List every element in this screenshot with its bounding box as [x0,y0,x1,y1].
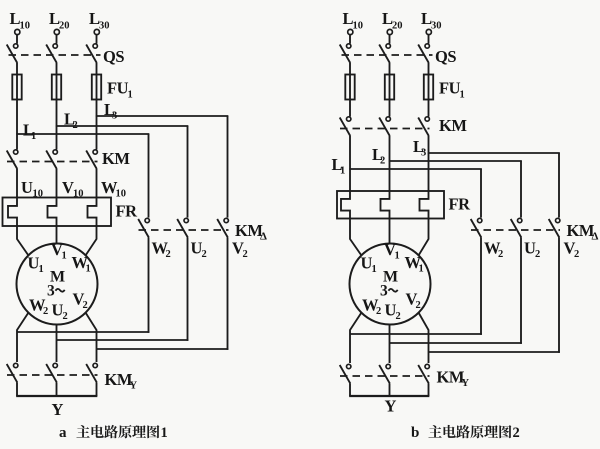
wire KM to FR heater 2 (diagram a) [56,169,58,198]
contactor label KM-delta (diagram a) [235,221,267,243]
wire FR to motor W1 (diagram a) [86,226,97,256]
svg-text:FR: FR [116,201,139,220]
svg-text:2: 2 [380,156,385,167]
svg-text:KM: KM [439,116,467,135]
right schematic: star-delta main circuit 2 [332,9,599,441]
contactor label KM-delta (diagram b) [567,221,599,243]
svg-text:3: 3 [112,111,117,122]
svg-text:2: 2 [166,249,171,260]
svg-text:10: 10 [353,21,364,32]
contactor KM-delta contact 2 (U2) (diagram b) [511,218,522,237]
terminal L10 (diagram a) [15,29,20,34]
svg-text:b: b [411,425,419,441]
wire KMY contact 3 to star bar (diagram b) [428,384,430,397]
wire KM-delta U2 branch down to step (diagram a) [187,238,189,341]
wire QS to fuse 3 (diagram b) [428,63,430,75]
wire KM-delta U2 branch down to step (diagram b) [520,238,522,344]
wire FR to motor V1 (diagram b) [389,219,391,244]
wire terminal to QS pole 2 (diagram a) [56,35,58,44]
wire KMY contact 2 to star bar (diagram b) [389,384,391,397]
disconnect switch QS pole 2 (diagram b) [379,44,390,63]
fuse FU1 element 1 (diagram b) [345,75,354,100]
wire KMY contact 1 to star bar (diagram a) [16,383,18,397]
svg-text:1: 1 [161,425,168,441]
FR heater element 3 (diagram b) [420,191,429,219]
motor label 3~ (diagram a) [47,283,65,300]
KMY linkage dashed line (diagram a) [7,374,98,376]
contactor KMY contact 3 (diagram b) [418,364,429,383]
wire FR to motor U1 (diagram b) [350,219,362,256]
contactor KMY contact 2 (diagram a) [46,363,57,382]
motor terminal label U2 (diagram a) [52,301,68,323]
wire KM-delta W2 branch down to step (diagram b) [480,238,482,335]
svg-text:2: 2 [43,306,48,317]
KM linkage dashed line (diagram a) [7,161,98,163]
wire KM-delta V2 branch down to step (diagram a) [227,238,229,350]
svg-text:2: 2 [396,311,401,322]
node L3 junction (diagram b) [428,152,430,154]
svg-text:1: 1 [460,90,465,101]
fuse FU1 element 3 (diagram b) [424,75,433,100]
terminal L10 (diagram b) [348,29,353,34]
svg-text:3: 3 [421,148,426,159]
svg-text:30: 30 [99,21,110,32]
wire fuse 1 to KM (diagram a) [16,100,18,150]
motor terminal label W1 (diagram a) [72,253,91,275]
wire FR to motor V1 (diagram a) [56,226,58,244]
svg-text:2: 2 [513,425,520,441]
wire KMY contact 2 to star bar (diagram a) [56,383,58,397]
wire step U2 to motor column (diagram b) [390,342,522,344]
KM linkage dashed line (diagram b) [340,128,430,130]
wire L2 bus to KM-delta branch (diagram a) [57,126,189,218]
svg-text:20: 20 [59,21,70,32]
wire fuse 2 to KM (diagram a) [56,100,58,150]
KM-delta linkage dashed line (diagram b) [471,229,560,231]
wire FR to motor U1 (diagram a) [17,226,29,256]
svg-text:1: 1 [340,166,345,177]
wire QS to fuse 3 (diagram a) [96,63,98,75]
disconnect switch QS pole 3 (diagram a) [86,44,97,63]
node L2 junction (diagram b) [389,160,391,162]
wire KMY contact 1 to star bar (diagram b) [349,384,351,397]
node label U10 (diagram a) [21,178,43,200]
fuse label FU1 (diagram b) [439,79,465,101]
motor M 3-phase (diagram b) [350,244,431,325]
node L30 phase label (diagram b) [421,9,442,32]
motor terminal label W1 (diagram b) [405,253,424,275]
KM-delta linkage dashed line (diagram a) [139,229,229,231]
node label L3 (diagram b) [413,137,426,159]
svg-text:20: 20 [392,21,403,32]
motor terminal label U2 (diagram b) [385,301,401,323]
wire L1 bus to KM-delta branch (diagram b) [350,169,482,218]
svg-text:1: 1 [39,264,44,275]
svg-text:2: 2 [83,300,88,311]
node label V10 (diagram a) [62,178,84,200]
wire terminal to QS pole 1 (diagram a) [16,35,18,44]
branch label W2 (diagram b) [484,239,503,261]
svg-text:1: 1 [395,251,400,262]
motor terminal label W2 (diagram a) [29,296,48,318]
wire fuse 3 to KM (diagram a) [96,100,98,150]
motor M 3-phase (diagram a) [17,244,98,325]
motor terminal label V2 (diagram b) [406,290,421,312]
fuse FU1 element 1 (diagram a) [12,75,21,100]
wire KM to FR heater 3 (diagram b) [428,136,430,191]
fuse FU1 element 2 (diagram b) [385,75,394,100]
svg-text:1: 1 [372,264,377,275]
branch label V2 (diagram b) [564,239,580,261]
wire terminal to QS pole 3 (diagram a) [96,35,98,44]
svg-text:2: 2 [202,249,207,260]
terminal L20 (diagram b) [387,29,392,34]
motor terminal label U1 (diagram a) [28,254,44,276]
svg-text:Y: Y [462,378,470,389]
FR heater element 2 (diagram a) [48,198,57,227]
svg-text:Y: Y [52,400,64,419]
svg-text:a: a [59,425,67,441]
wire KM to FR heater 3 (diagram a) [96,169,98,198]
svg-text:3: 3 [380,283,388,300]
star point bar (diagram a) [16,395,97,397]
motor terminal label V1 (diagram b) [384,240,400,262]
node L2 junction (diagram a) [56,125,58,127]
wire motor U2 down to KMY pole 2 (diagram a) [56,325,58,363]
svg-text:Y: Y [130,381,138,392]
wire terminal to QS pole 1 (diagram b) [349,35,351,44]
node L1 junction (diagram a) [16,133,18,135]
contactor KM-delta contact 2 (U2) (diagram a) [177,218,188,237]
wire motor W2 down to KMY pole 1 (diagram a) [17,313,29,363]
svg-text:U: U [21,178,33,197]
svg-text:Y: Y [385,397,397,416]
contactor label KMY (diagram b) [437,368,470,390]
wire KM-delta W2 branch down to step (diagram a) [148,238,150,333]
terminal L30 (diagram a) [94,29,99,34]
wire L3 bus to KM-delta branch (diagram b) [429,153,560,218]
node label L2 (diagram a) [64,110,78,132]
fuse FU1 element 2 (diagram a) [52,75,61,100]
contactor KM-delta contact 3 (V2) (diagram b) [549,218,560,237]
wire fuse 2 to KM (diagram b) [389,100,391,117]
contactor label KMY (diagram a) [105,370,138,392]
wire terminal to QS pole 3 (diagram b) [428,35,430,44]
svg-text:Δ: Δ [592,231,599,243]
star point label Y (diagram a) [52,400,64,419]
contactor KMY contact 3 (diagram a) [86,363,97,382]
contactor KM main contact 1 (diagram a) [7,150,18,169]
svg-text:QS: QS [103,47,124,66]
motor label M (diagram a) [50,269,65,286]
wire QS to fuse 1 (diagram a) [16,63,18,75]
wire fuse 1 to KM (diagram b) [349,100,351,117]
wire motor W2 down to KMY pole 1 (diagram b) [350,313,362,364]
node L10 phase label (diagram b) [343,9,364,32]
svg-text:2: 2 [376,306,381,317]
contactor KM main contact 2 (diagram b) [379,117,390,136]
motor terminal label U1 (diagram b) [361,254,377,276]
wire motor V2 down to KMY pole 3 (diagram a) [86,313,97,363]
svg-text:FR: FR [449,194,472,213]
node label L3 (diagram a) [104,100,117,122]
contactor label KM (diagram b) [439,116,467,135]
svg-text:2: 2 [73,120,78,131]
branch label W2 (diagram a) [152,239,171,261]
motor label 3~ (diagram b) [380,283,398,300]
svg-text:2: 2 [243,249,248,260]
KMY linkage dashed line (diagram b) [340,375,430,377]
contactor KMY contact 1 (diagram a) [7,363,18,382]
terminal L20 (diagram a) [54,29,59,34]
switch label QS (diagram a) [103,47,124,66]
motor label M (diagram b) [383,269,398,286]
caption a: main circuit schematic 1 [59,425,168,441]
node label L1 (diagram a) [23,121,36,143]
node L10 phase label (diagram a) [10,9,31,32]
svg-text:30: 30 [431,21,442,32]
disconnect switch QS pole 1 (diagram b) [340,44,351,63]
thermal relay label FR (diagram a) [116,201,139,220]
wire KM to FR heater 2 (diagram b) [389,136,391,191]
contactor KM main contact 1 (diagram b) [340,117,351,136]
wire step W2 to motor column (diagram b) [350,333,482,335]
QS linkage dashed line (diagram b) [342,54,433,56]
wire motor V2 down to KMY pole 3 (diagram b) [419,313,429,364]
terminal L30 (diagram b) [426,29,431,34]
wire L3 bus to KM-delta branch (diagram a) [97,116,229,218]
FR heater element 3 (diagram a) [88,198,97,227]
contactor KM main contact 3 (diagram b) [418,117,429,136]
wire motor U2 down to KMY pole 2 (diagram b) [389,325,391,364]
caption b: main circuit schematic 2 [411,425,520,441]
svg-text:2: 2 [574,249,579,260]
node label L1 (diagram b) [332,155,346,177]
fuse FU1 element 3 (diagram a) [92,75,101,100]
svg-text:1: 1 [31,131,36,142]
svg-text:1: 1 [419,264,424,275]
svg-text:FU: FU [439,79,461,98]
wire step U2 to motor column (diagram a) [57,339,189,341]
svg-text:10: 10 [116,189,127,200]
wire L2 bus to KM-delta branch (diagram b) [390,161,522,218]
left schematic: star-delta main circuit 1 [3,9,268,441]
wire QS to fuse 2 (diagram b) [389,63,391,75]
wire fuse 3 to KM (diagram b) [428,100,430,117]
wire KM-delta V2 branch down to step (diagram b) [558,238,560,353]
disconnect switch QS pole 2 (diagram a) [46,44,57,63]
wire step V2 to motor column (diagram a) [97,348,229,350]
contactor KM-delta contact 1 (W2) (diagram a) [138,218,149,237]
wire step W2 to motor column (diagram a) [17,331,149,333]
svg-text:QS: QS [435,47,456,66]
branch label U2 (diagram b) [524,239,540,261]
svg-text:KM: KM [102,149,130,168]
svg-text:FU: FU [107,79,129,98]
fuse label FU1 (diagram a) [107,79,133,101]
svg-text:3: 3 [47,283,55,300]
motor terminal label W2 (diagram b) [362,296,381,318]
contactor KMY contact 1 (diagram b) [340,364,351,383]
svg-text:2: 2 [498,249,503,260]
contactor KM main contact 2 (diagram a) [46,150,57,169]
wire KMY contact 3 to star bar (diagram a) [96,383,98,397]
wire QS to fuse 1 (diagram b) [349,63,351,75]
thermal relay FR box (diagram b) [337,191,444,219]
svg-text:1: 1 [62,251,67,262]
wire step V2 to motor column (diagram b) [429,351,560,353]
node L1 junction (diagram b) [349,168,351,170]
node label W10 (diagram a) [101,178,126,200]
wire KM to FR heater 1 (diagram a) [16,169,18,198]
svg-text:1: 1 [86,264,91,275]
wire QS to fuse 2 (diagram a) [56,63,58,75]
contactor KMY contact 2 (diagram b) [379,364,390,383]
branch label V2 (diagram a) [232,239,248,261]
FR heater element 1 (diagram b) [341,191,350,219]
disconnect switch QS pole 1 (diagram a) [7,44,18,63]
FR heater element 1 (diagram a) [8,198,17,227]
FR heater element 2 (diagram b) [381,191,390,219]
svg-text:2: 2 [63,311,68,322]
branch label U2 (diagram a) [191,239,207,261]
svg-text:2: 2 [416,300,421,311]
contactor KM main contact 3 (diagram a) [86,150,97,169]
disconnect switch QS pole 3 (diagram b) [418,44,429,63]
wire FR to motor W1 (diagram b) [419,219,429,256]
svg-text:1: 1 [128,90,133,101]
contactor label KM (diagram a) [102,149,130,168]
node L20 phase label (diagram a) [49,9,70,32]
svg-text:Δ: Δ [260,231,267,243]
star point bar (diagram b) [349,395,429,397]
wire KM to FR heater 1 (diagram b) [349,136,351,191]
wire terminal to QS pole 2 (diagram b) [389,35,391,44]
thermal relay FR box (diagram a) [3,198,112,227]
QS linkage dashed line (diagram a) [9,54,101,56]
motor terminal label V2 (diagram a) [73,290,88,312]
thermal relay label FR (diagram b) [449,194,472,213]
switch label QS (diagram b) [435,47,456,66]
wire L1 bus to KM-delta branch (diagram a) [17,134,149,218]
contactor KM-delta contact 3 (V2) (diagram a) [217,218,228,237]
svg-text:10: 10 [20,21,31,32]
node L30 phase label (diagram a) [89,9,110,32]
svg-text:2: 2 [535,249,540,260]
contactor KM-delta contact 1 (W2) (diagram b) [471,218,482,237]
node L20 phase label (diagram b) [382,9,403,32]
node L3 junction (diagram a) [96,115,98,117]
motor terminal label V1 (diagram a) [51,240,67,262]
node label L2 (diagram b) [372,145,385,167]
star point label Y (diagram b) [385,397,397,416]
